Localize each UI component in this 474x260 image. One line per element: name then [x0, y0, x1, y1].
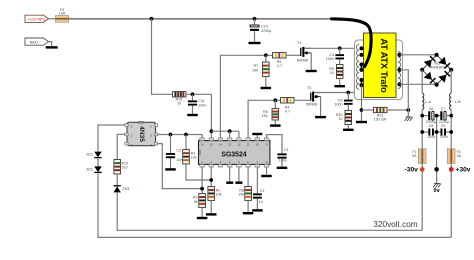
- ground pin8: [261, 175, 272, 177]
- svg-text:10: 10: [330, 71, 334, 75]
- node R1 junction: [184, 133, 188, 137]
- pin 2 of 4N35: [131, 134, 133, 138]
- capacitor C10 4700u electrolytic: [250, 25, 259, 31]
- zener diode ZD1: [94, 152, 101, 158]
- pin 5 of 4N35: [150, 134, 152, 138]
- label R8: [239, 188, 244, 192]
- wire C4 stem: [339, 48, 341, 54]
- wire 12V rail down to R16: [152, 19, 173, 95]
- node bridge top: [435, 53, 439, 57]
- svg-text:11: 11: [247, 142, 250, 146]
- label R2: [216, 188, 221, 192]
- svg-text:100n: 100n: [427, 135, 435, 139]
- wire R1 stem: [185, 135, 187, 150]
- svg-text:ZD1: ZD1: [86, 153, 93, 157]
- wire +30v rail: [450, 110, 452, 238]
- pin 3 of 4N35: [131, 143, 133, 147]
- label ZD2: [86, 167, 93, 171]
- label 100n of C4: [326, 57, 334, 61]
- transformer TR1 AT ATX Trafo body: [355, 33, 403, 100]
- wire pin8 down: [266, 167, 268, 175]
- svg-text:320volt.com: 320volt.com: [373, 220, 417, 229]
- node -30v terminal: [420, 167, 425, 172]
- ground C10: [249, 42, 261, 44]
- wire 0v rail: [436, 116, 438, 184]
- wire R12 to ZD3: [116, 174, 118, 186]
- svg-text:5A: 5A: [457, 154, 462, 158]
- label 1n of C3: [259, 200, 263, 204]
- svg-text:2200µ: 2200µ: [439, 120, 449, 124]
- wire R6 to ground: [274, 120, 276, 124]
- svg-text:ZD2: ZD2: [86, 167, 93, 171]
- op-amp U1 SG3524 PWM controller: [199, 138, 270, 167]
- wire trafo pins 5-6 link: [361, 80, 363, 85]
- wire C5 stem: [347, 93, 349, 100]
- ground pin4: [226, 182, 233, 184]
- node C6 C7 center: [435, 114, 439, 118]
- svg-text:ZD3: ZD3: [123, 187, 130, 191]
- wire C4 to R9: [339, 59, 341, 64]
- node Vin link pin13: [228, 129, 232, 133]
- resistor R9 10: [336, 65, 343, 79]
- wire pin1 down: [201, 167, 203, 193]
- op-amp U2 4N35 optocoupler: [125, 121, 158, 145]
- wire pin2 down: [210, 167, 212, 186]
- svg-text:L-B: L-B: [455, 100, 461, 104]
- wire pin4 down: [229, 167, 231, 181]
- label 0v: [434, 188, 441, 194]
- wire R2 to ground: [210, 201, 212, 214]
- label 10k of R1: [191, 156, 197, 160]
- ground T2 source: [315, 116, 326, 118]
- svg-text:4N35: 4N35: [138, 126, 145, 142]
- label 150 of R6: [262, 114, 268, 118]
- wire pin7 down: [256, 167, 258, 193]
- label 50N06 of T1: [297, 58, 308, 62]
- resistor R8 15k: [245, 187, 252, 201]
- svg-text:5k: 5k: [194, 200, 198, 204]
- svg-text:10: 10: [338, 117, 342, 121]
- svg-text:2200µ: 2200µ: [426, 120, 436, 124]
- node C11 junction: [191, 92, 195, 96]
- node C2 junction: [169, 133, 173, 137]
- wire R4 to T2 gate: [294, 99, 310, 101]
- label R4: [285, 106, 290, 110]
- label C11: [198, 99, 205, 103]
- label 10 of R9: [330, 71, 334, 75]
- label R11: [377, 114, 384, 118]
- label R16: [176, 98, 183, 102]
- label Br1: [434, 61, 440, 65]
- node R7 junction: [264, 53, 268, 57]
- pin trafo secondary 3: [397, 82, 401, 86]
- wire AKU- to ground: [49, 42, 52, 47]
- label 10k of R2: [216, 193, 222, 197]
- wire opto pin5 to Vref row: [158, 134, 202, 136]
- label R3: [193, 196, 198, 200]
- svg-text:50N06: 50N06: [306, 103, 317, 107]
- node bridge left: [420, 68, 424, 72]
- label R10: [336, 113, 343, 117]
- pin trafo primary 6: [359, 83, 363, 87]
- wire C8 right stem: [434, 131, 437, 133]
- node pin2 divider: [209, 178, 213, 182]
- resistor R16 10: [173, 92, 187, 97]
- label 4.7 of R5: [277, 64, 282, 68]
- label 4700u of C10: [261, 29, 272, 33]
- wire R6 stem: [274, 100, 276, 108]
- svg-text:-30v: -30v: [405, 166, 419, 173]
- svg-text:C2: C2: [176, 148, 181, 152]
- bridge rectifier Br1 4xFR302: [422, 55, 451, 85]
- wire T2 drain up to trafo pin: [355, 55, 362, 93]
- wire C9 left stem: [437, 131, 441, 133]
- resistor R11 150 2W: [374, 107, 388, 112]
- wire T1 source to ground: [310, 53, 312, 70]
- label 15k of R8: [238, 193, 244, 197]
- wire C6 right stem: [434, 115, 437, 117]
- svg-text:10: 10: [256, 142, 260, 146]
- svg-text:+30v: +30v: [456, 166, 471, 173]
- zener diode ZD2: [94, 166, 101, 172]
- label 150 of R7: [252, 68, 258, 72]
- node 12V rail to R16: [150, 17, 154, 21]
- wire pin6 down: [247, 167, 249, 186]
- wire pin11 to gate row 2: [248, 100, 280, 138]
- wire C6 left stem: [422, 115, 428, 117]
- label 100n of C9: [440, 135, 448, 139]
- wire trafo center tap to ground: [400, 70, 409, 117]
- ground R9: [334, 85, 345, 87]
- wire connector to fuse F3: [49, 18, 56, 20]
- wire opto pin4 feedback: [158, 144, 202, 189]
- svg-text:4700µ: 4700µ: [261, 29, 272, 33]
- svg-text:1n: 1n: [259, 200, 263, 204]
- ground center tap rake: [405, 117, 413, 121]
- svg-text:100n: 100n: [440, 135, 448, 139]
- node R11 right: [406, 108, 410, 112]
- label R7: [253, 64, 258, 68]
- node rail to C10: [253, 17, 257, 21]
- capacitor C6 2200u electrolytic: [428, 111, 434, 120]
- wire C11 to ground: [192, 106, 194, 114]
- svg-text:AKÜ -: AKÜ -: [30, 39, 41, 44]
- fuse F3 10A: [56, 16, 69, 23]
- label ZD3: [123, 187, 130, 191]
- connector +12V AKU battery terminal: [25, 15, 49, 22]
- ground C11: [187, 114, 198, 116]
- label 10A: [59, 12, 66, 16]
- wire pin9 to C1: [267, 135, 283, 154]
- svg-text:16: 16: [200, 142, 204, 146]
- wire T2 source to ground: [320, 97, 322, 116]
- svg-text:C3: C3: [260, 189, 265, 193]
- svg-text:10n: 10n: [176, 158, 182, 162]
- wire C5 to R10: [347, 105, 349, 111]
- capacitor C7 2200u electrolytic: [440, 111, 446, 120]
- node C8 C9 center: [435, 130, 439, 134]
- wire feedback +30v to ZD2: [98, 173, 451, 238]
- label 100n of C11: [198, 103, 206, 107]
- capacitor C3 1n: [253, 193, 262, 198]
- wire R10 to ground: [347, 125, 349, 129]
- node bridge right: [449, 68, 453, 72]
- resistor R5 4.7: [273, 53, 287, 58]
- label C4: [329, 53, 334, 57]
- capacitor C8 100n: [428, 129, 434, 136]
- svg-text:15: 15: [210, 142, 214, 146]
- node 0v terminal: [434, 167, 439, 172]
- capacitor C1 100n: [277, 153, 286, 158]
- label -30v output: [405, 166, 419, 173]
- label 150 2W of R11: [374, 118, 387, 122]
- label 100n of C5: [334, 102, 342, 106]
- transformer secondary winding arcs: [398, 52, 401, 89]
- fuse F2 5A: [447, 149, 455, 164]
- pin 4 of 4N35: [150, 143, 152, 147]
- wire pin12 drop: [238, 131, 240, 138]
- wire R16 to Vin corner: [186, 93, 211, 95]
- svg-text:14: 14: [219, 142, 223, 146]
- label R9: [329, 67, 334, 71]
- wire bridge right down: [450, 70, 452, 93]
- pin trafo primary 2: [359, 53, 363, 57]
- svg-text:150: 150: [262, 114, 268, 118]
- pin trafo secondary 2: [397, 68, 401, 72]
- wire C8 left stem: [422, 131, 428, 133]
- resistor R12 510: [114, 160, 121, 175]
- inductor L-A: [422, 93, 424, 109]
- wire R11 right lead: [387, 109, 408, 111]
- svg-text:10k: 10k: [216, 193, 222, 197]
- svg-text:10A: 10A: [59, 12, 66, 16]
- svg-text:T2: T2: [307, 86, 311, 90]
- wire ZD1 to ZD2: [97, 158, 99, 167]
- wire trafo sec1 to bridge top: [400, 54, 437, 56]
- resistor R2 10k: [208, 187, 215, 201]
- connector AKU- battery terminal: [25, 38, 49, 45]
- label C6: [429, 107, 434, 111]
- label C7: [441, 107, 446, 111]
- svg-text:100n: 100n: [326, 57, 334, 61]
- node C8 left: [420, 130, 424, 134]
- ground R10: [343, 129, 354, 131]
- label 2200u of C7: [439, 120, 449, 124]
- label R1: [191, 151, 196, 155]
- wire C7 right stem: [446, 115, 451, 117]
- wire bridge left down: [421, 70, 423, 93]
- node +30v terminal: [449, 167, 454, 172]
- svg-text:50N06: 50N06: [297, 58, 308, 62]
- fuse F1 5A: [418, 149, 426, 164]
- wire pin13 stub link: [229, 131, 231, 138]
- node R6 junction: [273, 98, 277, 102]
- svg-text:C6: C6: [429, 107, 434, 111]
- label R12: [122, 161, 129, 165]
- wire C2 to ground: [170, 158, 172, 168]
- wire C10 stem top: [254, 19, 256, 25]
- ground R6: [270, 124, 281, 126]
- wire C10 to ground: [254, 31, 256, 42]
- wire pin5 down: [238, 167, 240, 181]
- svg-text:15k: 15k: [238, 193, 244, 197]
- node pin1 feedback: [200, 187, 204, 191]
- label 50N06 of T2: [306, 103, 317, 107]
- node R11 left: [360, 108, 364, 112]
- resistor R3 5k: [199, 194, 206, 208]
- ground R2: [206, 213, 217, 215]
- svg-text:C8: C8: [429, 124, 434, 128]
- svg-text:4.7: 4.7: [285, 109, 290, 113]
- label T1: [297, 41, 301, 45]
- label 5k of R3: [194, 200, 198, 204]
- wire trafo sec3 to bridge bottom: [400, 83, 437, 85]
- wire R5 to T1 gate: [286, 54, 301, 56]
- label R6: [263, 110, 268, 114]
- label F3: [60, 8, 64, 12]
- node Vin link pin15: [210, 129, 214, 133]
- label 4.7 of R4: [285, 109, 290, 113]
- wire R9 to ground: [339, 79, 341, 86]
- svg-text:+12V AKÜ: +12V AKÜ: [28, 18, 46, 22]
- ground trafo left: [356, 121, 367, 123]
- svg-text:10k: 10k: [191, 156, 197, 160]
- label ZD1: [86, 153, 93, 157]
- label T2: [307, 86, 311, 90]
- resistor R1 10k: [183, 150, 190, 165]
- svg-text:AT ATX Trafo: AT ATX Trafo: [379, 38, 389, 93]
- label +30v output: [456, 166, 471, 173]
- resistor R4 4.7: [281, 98, 295, 103]
- svg-text:150 2W: 150 2W: [374, 118, 387, 122]
- transistor T1 50N06 MOSFET: [300, 47, 311, 57]
- wire T2 drain to corner: [314, 92, 354, 94]
- wire R7 stem: [265, 55, 267, 62]
- wire trafo pins 3-4 link: [361, 65, 363, 70]
- svg-text:510: 510: [122, 166, 128, 170]
- wire opto pin2 to R12: [117, 134, 125, 159]
- label 10 of R10: [338, 117, 342, 121]
- transformer primary winding arcs: [356, 45, 359, 90]
- ground C2: [165, 168, 176, 170]
- wire -30v rail: [421, 110, 423, 231]
- svg-text:100n: 100n: [198, 103, 206, 107]
- wire pin14 to gate row 1: [220, 55, 272, 138]
- svg-text:0v: 0v: [434, 188, 441, 194]
- svg-text:C9: C9: [441, 124, 446, 128]
- node C9 right: [449, 130, 453, 134]
- label 10n of C2: [176, 158, 182, 162]
- wire R11 left lead: [362, 109, 374, 111]
- svg-text:100n: 100n: [334, 102, 342, 106]
- wire R3 to ground: [201, 208, 203, 217]
- inductor L-B: [450, 93, 452, 109]
- pin 6 of 4N35: [150, 124, 152, 128]
- capacitor C9 100n: [441, 129, 447, 136]
- ground R3: [197, 217, 208, 219]
- wire C9 right stem: [446, 131, 451, 133]
- capacitor C4 100n: [335, 54, 344, 59]
- label C10: [261, 25, 268, 29]
- wire C2 stem: [170, 135, 172, 154]
- wire Vin down to pin15: [210, 94, 212, 138]
- svg-text:100n: 100n: [279, 158, 287, 162]
- wire thick 12V feed to trafo center tap: [332, 19, 372, 67]
- pin trafo primary 4: [359, 68, 363, 72]
- ground 0v rake: [433, 184, 441, 188]
- label C3: [260, 189, 265, 193]
- resistor R10 10: [345, 111, 352, 125]
- ground AKU-: [46, 46, 58, 48]
- svg-text:5A: 5A: [412, 154, 417, 158]
- wire R1 to pin2 node: [186, 164, 211, 180]
- node C4 junction: [338, 46, 342, 50]
- label 5A of F1: [412, 154, 417, 158]
- label 4xFR302: [430, 65, 444, 69]
- wire +12V rail: [69, 18, 332, 20]
- label 5A of F2: [457, 154, 462, 158]
- wire R7 to ground: [265, 77, 267, 87]
- label C1: [284, 148, 289, 152]
- pin trafo primary 5: [359, 78, 363, 82]
- label C9: [441, 124, 446, 128]
- node C7 right: [449, 114, 453, 118]
- ground pin10 bar: [252, 133, 262, 138]
- label C2: [176, 148, 181, 152]
- node C5 junction: [346, 91, 350, 95]
- svg-text:10: 10: [177, 101, 181, 105]
- wire feedback -30v to ZD3: [117, 193, 422, 231]
- label C8: [429, 124, 434, 128]
- label 100n of C1: [279, 158, 287, 162]
- pin trafo secondary 1: [397, 53, 401, 57]
- node C6 left: [420, 114, 424, 118]
- wire R8 to ground: [247, 201, 249, 213]
- label F1: [412, 150, 416, 154]
- wire pin16 drop: [201, 135, 203, 139]
- ground C1: [277, 167, 288, 169]
- resistor R6 150: [272, 109, 279, 121]
- svg-text:C1: C1: [284, 148, 289, 152]
- wire C7 left stem: [437, 115, 441, 117]
- pin trafo primary 3: [359, 62, 363, 66]
- svg-text:SG3524: SG3524: [221, 151, 246, 158]
- svg-text:L-A: L-A: [425, 100, 431, 104]
- pin trafo primary 1: [359, 46, 363, 50]
- ground pin5: [235, 182, 242, 184]
- ground R7: [261, 87, 272, 89]
- wire C1 to ground: [281, 159, 283, 167]
- svg-text:T1: T1: [297, 41, 301, 45]
- wire T1 drain to trafo: [304, 47, 361, 49]
- wire ZD1 up to opto pin1: [98, 125, 125, 152]
- resistor R7 150: [263, 62, 270, 77]
- label C5: [338, 98, 343, 102]
- svg-text:4xFR302: 4xFR302: [430, 65, 444, 69]
- label 10 of R16: [177, 101, 181, 105]
- wire C3 to ground: [256, 199, 258, 210]
- pin 1 of 4N35: [131, 124, 133, 128]
- label 510 of R12: [122, 166, 128, 170]
- svg-text:13: 13: [228, 142, 232, 146]
- wire C11 stem: [192, 94, 194, 100]
- wire Vin link to pin13 pin12: [211, 130, 239, 132]
- label L-B: [455, 100, 461, 104]
- wire trafo pin6 down: [361, 85, 363, 121]
- svg-text:150: 150: [252, 68, 258, 72]
- svg-text:12: 12: [237, 142, 241, 146]
- label L-A: [425, 100, 431, 104]
